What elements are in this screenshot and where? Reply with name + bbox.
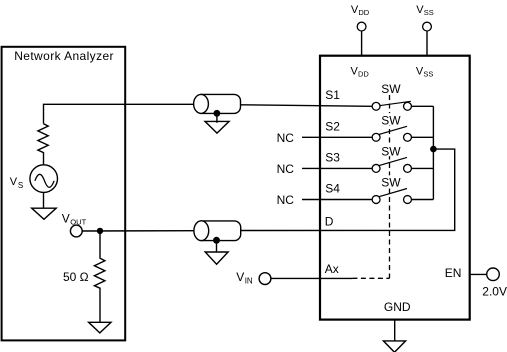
wire VDD pin	[361, 31, 363, 56]
coax cable 1 body	[201, 94, 241, 113]
terminal VOUT	[70, 225, 82, 237]
svg-text:S2: S2	[325, 119, 340, 133]
wire EN pin	[471, 273, 487, 275]
svg-text:EN: EN	[445, 266, 462, 280]
junction VOUT node	[97, 228, 103, 234]
terminal VIN	[259, 273, 271, 285]
svg-text:DD: DD	[358, 69, 369, 78]
svg-text:S1: S1	[325, 88, 340, 102]
wire coax2 shield to ground	[216, 240, 218, 252]
svg-text:GND: GND	[384, 300, 411, 314]
svg-text:DD: DD	[358, 8, 369, 17]
wire VOUT to coax2	[82, 230, 196, 232]
svg-text:D: D	[325, 215, 334, 229]
wire coax2 to D and up	[241, 149, 455, 230]
svg-text:NC: NC	[277, 193, 295, 207]
switch SW2	[372, 126, 433, 141]
svg-text:SW: SW	[381, 113, 401, 127]
wire NC to S2	[302, 136, 372, 138]
wire coax1 to S1 switch	[240, 105, 372, 107]
source VS circle	[30, 165, 58, 193]
svg-text:2.0V: 2.0V	[482, 285, 507, 299]
wire VSS pin	[426, 31, 428, 56]
wire NC to S3	[302, 167, 372, 169]
svg-text:IN: IN	[245, 276, 253, 285]
svg-text:SW: SW	[381, 176, 401, 190]
wire VIN to Ax	[271, 277, 353, 279]
terminal VDD	[357, 22, 366, 31]
wire coax1 shield to ground	[216, 113, 218, 123]
ground (VS)	[32, 208, 57, 219]
bus wire right of switches	[432, 106, 434, 199]
svg-text:SS: SS	[423, 69, 433, 78]
dashed control line horizontal	[352, 277, 389, 279]
switch SW4	[372, 189, 433, 204]
IC box	[320, 56, 470, 320]
svg-text:SS: SS	[424, 8, 434, 17]
svg-text:S: S	[18, 181, 23, 190]
junction coax2 shield	[213, 237, 220, 244]
junction coax1 shield	[214, 110, 221, 117]
wire GND pin	[394, 320, 396, 341]
ground (50 ohm)	[89, 322, 111, 333]
switch SW3	[372, 157, 433, 172]
resistor 50 ohm	[94, 231, 105, 322]
svg-text:OUT: OUT	[70, 217, 86, 226]
network analyzer box	[2, 47, 126, 341]
terminal VSS	[423, 22, 432, 31]
svg-text:SW: SW	[381, 144, 401, 158]
ground (coax1)	[205, 121, 229, 133]
svg-text:Ax: Ax	[325, 262, 339, 276]
svg-text:S4: S4	[325, 182, 340, 196]
svg-text:NC: NC	[277, 162, 295, 176]
svg-text:50 Ω: 50 Ω	[63, 270, 89, 284]
label SW (S2)	[380, 113, 401, 127]
label SW (S3)	[380, 144, 401, 158]
svg-text:NC: NC	[277, 131, 295, 145]
sine wave inside VS	[35, 174, 54, 187]
resistor Rs (analyzer source resistor)	[38, 124, 48, 165]
svg-text:V: V	[10, 176, 18, 188]
dashed control line vertical	[389, 95, 391, 278]
switch SW1	[372, 101, 433, 110]
svg-text:Network Analyzer: Network Analyzer	[14, 49, 114, 63]
label SW (S4)	[380, 175, 401, 189]
ground (GND)	[383, 341, 405, 352]
svg-text:V: V	[236, 270, 244, 284]
ground (coax2)	[205, 252, 228, 264]
wire VS to ground	[43, 192, 45, 208]
svg-text:V: V	[62, 212, 70, 226]
wire NC to S4	[302, 199, 372, 201]
svg-text:S3: S3	[325, 150, 340, 164]
junction bus to D	[430, 146, 437, 153]
coax cable 2 body	[201, 221, 240, 241]
label SW (S1)	[380, 82, 401, 96]
terminal EN	[487, 268, 500, 281]
svg-text:SW: SW	[381, 82, 401, 96]
wire S1 row from analyzer to switch	[44, 104, 197, 123]
